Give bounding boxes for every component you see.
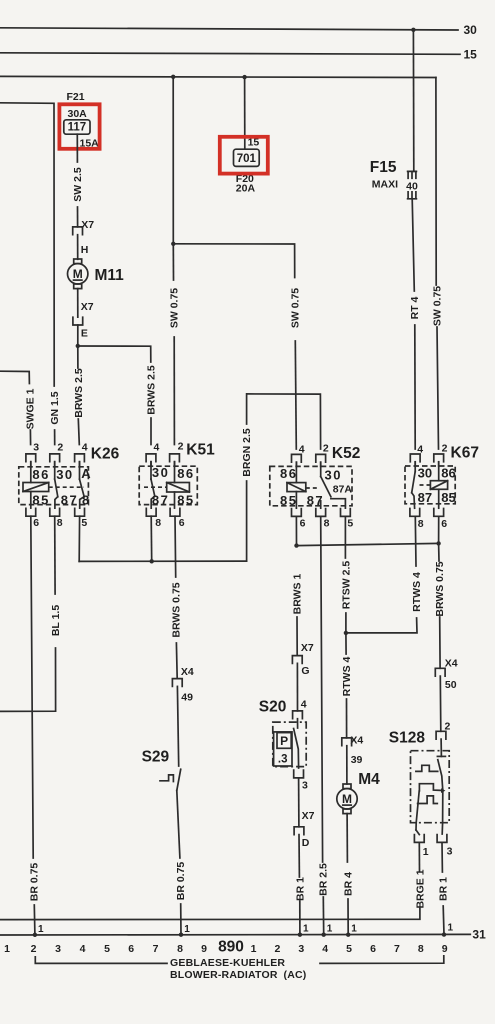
svg-text:2: 2	[178, 441, 184, 453]
svg-text:BRWS 0.75: BRWS 0.75	[434, 561, 446, 616]
svg-text:M: M	[73, 267, 83, 281]
wire: link to K67 pin8 (RTWS 4)	[346, 618, 417, 633]
S128 upper actuator	[416, 765, 438, 771]
svg-text:D: D	[302, 837, 310, 849]
svg-text:BR 1: BR 1	[437, 877, 449, 901]
svg-text:87: 87	[152, 492, 169, 507]
wire to S20	[296, 663, 298, 711]
svg-text:20A: 20A	[236, 183, 256, 195]
wire: horizontal y561	[79, 560, 246, 562]
red highlight box around 117	[59, 104, 99, 149]
wire: K52 pin6 down to junction	[295, 516, 297, 545]
S20 dashed box	[273, 722, 306, 767]
K67 bottom connectors	[410, 509, 420, 517]
svg-text:30A: 30A	[68, 108, 88, 120]
wire: SW 0.75 col3 from bus3 corner	[435, 78, 437, 286]
svg-text:G: G	[301, 665, 309, 677]
K52 coil	[295, 462, 297, 482]
svg-text:1: 1	[448, 923, 454, 934]
S20 bottom connector pin 3	[294, 770, 304, 778]
svg-text:50: 50	[445, 679, 457, 691]
S20 inner box	[274, 732, 292, 766]
svg-text:123456789: 123456789	[251, 943, 448, 955]
svg-text:87A: 87A	[333, 483, 353, 495]
svg-text:F21: F21	[67, 91, 85, 103]
svg-text:123456789: 123456789	[4, 943, 207, 955]
K52 bottom connectors	[292, 509, 302, 517]
K26 linkage dashes	[49, 486, 84, 488]
svg-text:30: 30	[418, 465, 432, 480]
svg-text:86: 86	[280, 466, 297, 481]
svg-text:K52: K52	[332, 445, 360, 462]
svg-text:87: 87	[61, 493, 78, 508]
svg-text:F15: F15	[370, 159, 397, 176]
relay K51 box	[139, 466, 197, 504]
svg-text:85: 85	[32, 493, 49, 508]
svg-text:701: 701	[237, 153, 257, 165]
svg-text:6: 6	[300, 517, 306, 529]
wire: K67 pin6 down to junction	[438, 516, 440, 543]
fuse F15 clip top	[408, 171, 417, 178]
svg-text:30: 30	[56, 467, 73, 482]
fuse F21 track box 117	[64, 120, 90, 134]
bracket left	[35, 957, 167, 964]
wire: third supply line y77	[0, 76, 436, 77]
svg-text:X7: X7	[301, 642, 314, 654]
svg-text:2: 2	[323, 443, 329, 455]
wire below M4 BR 4	[346, 814, 348, 862]
svg-text:S29: S29	[142, 748, 170, 765]
svg-text:86: 86	[32, 467, 49, 482]
svg-text:BRWS 1: BRWS 1	[291, 574, 303, 615]
fuse F15 clip bottom	[408, 192, 417, 199]
svg-text:RTWS 4: RTWS 4	[341, 657, 353, 697]
svg-text:8: 8	[155, 517, 161, 529]
svg-text:8: 8	[418, 518, 424, 530]
wire: SW 0.75 from bus3 to K51 pin2	[172, 77, 174, 244]
bracket right	[320, 956, 444, 964]
fuse F20 track box 701	[234, 149, 260, 166]
node: junction bus3 / SW0.75 branch	[171, 75, 175, 79]
wire: ground bus 31	[0, 933, 470, 936]
svg-text:86: 86	[441, 465, 455, 480]
svg-text:85: 85	[177, 492, 194, 507]
svg-text:1: 1	[327, 924, 333, 935]
svg-text:8: 8	[324, 517, 330, 529]
S128 dash-dot box	[411, 751, 450, 823]
K67 linkage dashes	[420, 484, 431, 486]
svg-text:40: 40	[406, 181, 418, 193]
svg-text:2: 2	[57, 442, 63, 454]
K26 contact A-8	[79, 462, 81, 480]
wire BRGE1 corner to left edge	[0, 907, 420, 920]
S128 right wire to pin3	[441, 791, 444, 834]
K67 contact 30-87	[414, 462, 416, 472]
svg-text:85: 85	[441, 490, 455, 505]
svg-text:S128: S128	[389, 730, 426, 747]
wire below M11	[77, 289, 79, 318]
K52 linkage dashes	[306, 487, 318, 489]
wire: bus terminal 15	[0, 53, 460, 55]
svg-text:RTWS 4: RTWS 4	[411, 572, 423, 612]
node: ground dot track2	[33, 933, 37, 937]
svg-text:SW 0.75: SW 0.75	[169, 288, 181, 328]
svg-text:86: 86	[177, 466, 194, 481]
svg-text:49: 49	[181, 691, 193, 703]
svg-text:8: 8	[57, 517, 63, 529]
K51 linkage dashes	[144, 486, 167, 488]
svg-text:30: 30	[325, 467, 342, 482]
S20 contact	[294, 729, 299, 769]
svg-text:M4: M4	[358, 771, 380, 788]
svg-text:87: 87	[418, 490, 432, 505]
K26 contact 30-87	[54, 462, 56, 480]
svg-text:39: 39	[351, 754, 363, 766]
wire into S128	[440, 739, 442, 756]
svg-text:GN 1.5: GN 1.5	[49, 391, 61, 424]
wire down BR 1 (track3)	[298, 835, 300, 877]
wire down to S29	[177, 686, 178, 766]
svg-text:X4: X4	[445, 658, 458, 670]
node: ground dot track4	[322, 933, 326, 937]
svg-text:4: 4	[82, 442, 88, 454]
svg-text:H: H	[81, 244, 89, 256]
svg-text:BR 0.75: BR 0.75	[175, 862, 187, 901]
wire: bus3 down to F20	[244, 77, 246, 149]
wire: bus terminal 30	[0, 28, 458, 30]
svg-text:SW 0.75: SW 0.75	[431, 286, 443, 326]
svg-text:RT 4: RT 4	[409, 296, 421, 319]
wire S29 down BR 0.75	[177, 791, 180, 859]
svg-text:2: 2	[442, 443, 448, 455]
svg-text:31: 31	[472, 928, 486, 942]
svg-text:RTSW 2.5: RTSW 2.5	[340, 561, 352, 610]
svg-text:1: 1	[38, 924, 44, 935]
svg-text:BR 1: BR 1	[294, 877, 306, 901]
svg-text:X7: X7	[302, 810, 315, 822]
svg-text:K51: K51	[186, 442, 215, 459]
K52 contact link to pin5	[331, 499, 346, 509]
wire E to junction	[77, 325, 79, 346]
K26 bottom connectors	[26, 508, 36, 516]
wire: main col down to K26 pin4	[77, 346, 79, 368]
S128 lower actuator	[418, 796, 438, 804]
wire BRGE 1 from S128 pin1	[418, 842, 420, 871]
S20 P symbol	[277, 733, 291, 749]
svg-text:BRGE 1: BRGE 1	[414, 869, 426, 908]
svg-text:1: 1	[351, 924, 357, 935]
svg-text:X7: X7	[81, 301, 94, 313]
wire: F21 down SW 2.5	[76, 134, 78, 162]
svg-text:4: 4	[301, 698, 307, 710]
svg-text:BRGN 2.5: BRGN 2.5	[241, 428, 253, 477]
red highlight box around 701	[220, 137, 268, 174]
node: junction bus3 / F20 feed	[242, 75, 246, 79]
K51 bottom connectors	[146, 508, 156, 516]
svg-text:1: 1	[184, 924, 190, 935]
relay K67 box	[405, 466, 455, 504]
node: ground dot track9	[442, 932, 446, 936]
wire: horizontal y545 to K67 pin6	[297, 543, 439, 545]
svg-text:3: 3	[447, 846, 453, 858]
wire to M4	[346, 746, 348, 784]
wire: BRGN down to y561	[246, 481, 248, 561]
svg-text:A: A	[81, 466, 92, 481]
node: junction BRWS 0.75	[436, 541, 440, 545]
wire to M11 pin H	[77, 235, 79, 260]
S128 left contact to pin1	[416, 791, 419, 830]
node: ground dot track3	[298, 933, 302, 937]
wire: K51 pin8 down to y561	[150, 516, 153, 561]
svg-text:BRWS 2.5: BRWS 2.5	[146, 365, 158, 415]
svg-text:8: 8	[82, 493, 91, 508]
S128 top tick	[437, 755, 445, 757]
svg-text:3: 3	[33, 442, 39, 454]
svg-text:K67: K67	[451, 445, 479, 462]
svg-text:K26: K26	[91, 445, 120, 462]
K67 coil	[438, 462, 440, 481]
svg-text:MAXI: MAXI	[372, 178, 398, 190]
S128 upper contact	[438, 760, 443, 791]
wire: K26 pin8 down BL 1.5	[54, 516, 56, 594]
node: ground dot track8	[179, 933, 183, 937]
svg-text:M11: M11	[95, 267, 125, 284]
svg-text:GEBLAESE-KUEHLER: GEBLAESE-KUEHLER	[170, 957, 285, 969]
wire: down to M4 RTWS 4	[345, 633, 347, 654]
svg-text:890: 890	[218, 938, 244, 955]
S128 junction arrow	[441, 788, 445, 793]
svg-text:BR 0.75: BR 0.75	[28, 863, 40, 902]
node: junction below M11	[76, 344, 80, 348]
K51 coil	[174, 462, 176, 483]
svg-text:BL 1.5: BL 1.5	[50, 605, 62, 636]
wire: K52 pin8 down BR 2.5	[321, 516, 323, 862]
svg-text:BRWS 0.75: BRWS 0.75	[171, 582, 183, 637]
svg-text:SW 0.75: SW 0.75	[290, 288, 302, 328]
wire: RT 4 down to K67 pin4	[412, 199, 414, 291]
svg-text:6: 6	[179, 517, 185, 529]
svg-text:1: 1	[423, 846, 429, 858]
relay K26 box	[19, 467, 89, 505]
node: junction K51 pin8 on y561	[150, 559, 154, 563]
svg-text:SW 2.5: SW 2.5	[72, 167, 84, 202]
motor M4	[337, 789, 357, 809]
wire: horizontal y394 BRGN to K52 pin2	[247, 394, 321, 449]
wire BL 1.5 to left edge	[0, 648, 56, 711]
svg-text:.3: .3	[278, 753, 288, 765]
wire into S20 box	[297, 719, 299, 728]
svg-text:117: 117	[68, 122, 87, 134]
wire: branch over to K52 pin4	[173, 244, 294, 278]
S128 middle actuator	[419, 784, 442, 791]
svg-text:BLOWER-RADIATOR: BLOWER-RADIATOR	[170, 969, 278, 981]
svg-text:3: 3	[302, 780, 308, 792]
svg-text:X4: X4	[181, 666, 194, 678]
node: junction BRWS1	[294, 543, 298, 547]
svg-text:E: E	[81, 328, 88, 340]
S128 pin3 connector	[437, 835, 447, 843]
node: junction RTWS	[344, 631, 348, 635]
svg-text:85: 85	[280, 493, 297, 508]
node: junction on bus 30 feeding F15	[411, 28, 415, 32]
svg-text:1: 1	[303, 924, 309, 935]
wire: feed from left edge y371 (SWGE 1)	[0, 371, 29, 383]
wire: K26 pin5 down	[78, 516, 80, 561]
svg-text:6: 6	[441, 518, 447, 530]
node: branch to second SW0.75	[171, 242, 175, 246]
wire BR 1 from S128 pin3	[441, 842, 443, 872]
node: ground dot track5	[346, 933, 350, 937]
svg-text:15: 15	[464, 47, 478, 61]
K51 contact 30-87	[150, 462, 152, 480]
motor M11	[68, 264, 88, 284]
svg-text:BRWS 2.5: BRWS 2.5	[73, 368, 85, 418]
svg-text:(AC): (AC)	[284, 969, 307, 981]
wire: K52 pin5 down RTSW 2.5	[344, 516, 346, 558]
svg-text:SWGE 1: SWGE 1	[25, 388, 37, 429]
wire S20 to X7 D	[298, 778, 300, 827]
svg-text:M: M	[342, 792, 352, 806]
svg-text:5: 5	[81, 517, 87, 529]
svg-text:30: 30	[464, 23, 478, 37]
wire to S128 pin2	[439, 676, 442, 731]
svg-text:BR 2.5: BR 2.5	[318, 863, 330, 896]
K26 coil	[30, 462, 32, 483]
wire: branch to K51 pin4	[78, 346, 151, 362]
svg-text:P: P	[280, 734, 288, 748]
wire: from bus30 junction down (F15)	[412, 30, 414, 172]
svg-text:5: 5	[347, 517, 353, 529]
wire: feed from left edge y103 (GN 1.5)	[0, 103, 54, 386]
K52 stub to pin 8	[320, 501, 322, 508]
svg-text:30: 30	[152, 465, 169, 480]
S128 pin1 connector	[414, 835, 424, 843]
wire: K51 pin6 down	[174, 516, 177, 577]
relay K52 box	[270, 466, 352, 505]
wire: K26 pin6 down BR 0.75	[31, 516, 33, 858]
svg-text:BR 4: BR 4	[342, 872, 354, 896]
svg-text:4: 4	[154, 442, 160, 454]
svg-text:6: 6	[33, 517, 39, 529]
K52 contact 30-87A	[320, 462, 322, 476]
svg-text:S20: S20	[259, 699, 287, 716]
